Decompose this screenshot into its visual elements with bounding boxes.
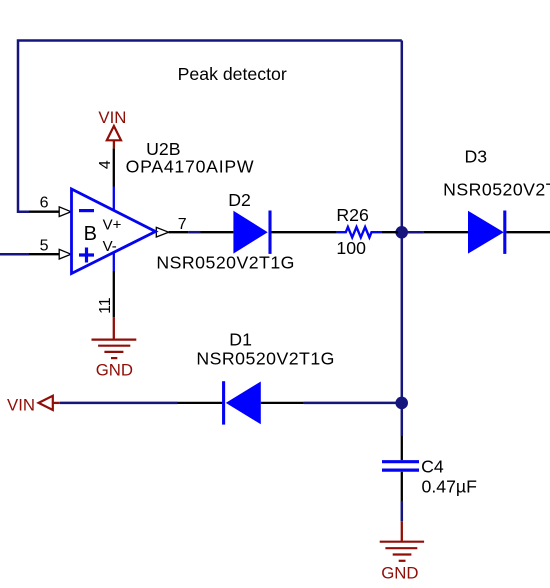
wire pin 5 black lead [29, 253, 59, 255]
pin 6 arrowhead [59, 207, 71, 217]
diode D3 [468, 211, 505, 254]
op-amp inverting input minus sign [79, 209, 94, 212]
pin 7 output arrowhead [156, 227, 168, 237]
wire D1 cathode to node [304, 402, 402, 405]
op-amp pin 11 V- lead [113, 252, 115, 271]
svg-text:0.47µF: 0.47µF [422, 476, 478, 496]
svg-text:11: 11 [97, 297, 114, 314]
wire feedback net from output node to pin 6 [18, 41, 402, 212]
node junction dot at R26/D3 [395, 226, 408, 239]
wire VIN to D1 anode [60, 402, 178, 405]
svg-text:R26: R26 [336, 205, 369, 225]
wire node to D3 anode [424, 231, 468, 233]
capacitor C4 [382, 436, 419, 501]
svg-text:Peak detector: Peak detector [178, 64, 287, 84]
wire D2 anode lead [201, 231, 234, 233]
power VIN arrow top [113, 140, 115, 148]
svg-text:NSR0520V2T1G: NSR0520V2T1G [156, 253, 294, 273]
wire C4 to ground [401, 501, 404, 521]
svg-text:D2: D2 [228, 190, 251, 210]
wire output node vertical bus [401, 41, 404, 437]
node junction dot at D1/C4 [395, 397, 408, 410]
wire D1 anode black lead [261, 402, 304, 404]
op-amp U2B triangle [72, 189, 156, 274]
svg-text:7: 7 [178, 216, 187, 233]
svg-text:NSR0520V2T1G: NSR0520V2T1G [196, 348, 334, 368]
pin 5 arrowhead [59, 249, 71, 259]
resistor R26 [337, 227, 382, 237]
op-amp non-inverting input plus sign [79, 248, 94, 263]
svg-text:5: 5 [40, 237, 49, 254]
svg-text:6: 6 [40, 195, 49, 212]
svg-text:GND: GND [381, 564, 418, 583]
ground symbol bottom [380, 542, 424, 561]
svg-text:C4: C4 [421, 457, 444, 477]
svg-text:V+: V+ [103, 216, 122, 233]
wire D2 cathode to R26 [272, 231, 337, 233]
wire R26 to node [381, 231, 398, 233]
svg-text:D1: D1 [229, 330, 252, 350]
diode D1 [224, 381, 261, 424]
svg-text:VIN: VIN [98, 108, 126, 127]
svg-text:GND: GND [96, 360, 133, 379]
port VIN arrow left [53, 402, 60, 404]
svg-text:B: B [84, 223, 97, 245]
wire pin 7 net stub [188, 231, 200, 234]
wire pin 7 black lead [169, 231, 189, 233]
ground symbol op-amp [92, 340, 137, 359]
svg-text:VIN: VIN [7, 395, 35, 414]
svg-text:D3: D3 [465, 147, 488, 167]
svg-text:OPA4170AIPW: OPA4170AIPW [126, 156, 254, 176]
svg-text:4: 4 [97, 160, 114, 169]
op-amp pin 4 V+ lead [113, 148, 115, 186]
svg-text:NSR0520V2T1G: NSR0520V2T1G [443, 180, 550, 200]
wire pin 5 input from left edge [0, 253, 29, 256]
wire D3 cathode to right edge [506, 231, 550, 233]
svg-text:V-: V- [103, 238, 117, 255]
wire pin 6 black lead [29, 211, 59, 213]
wire VIN left to D1 cathode black lead [178, 402, 223, 404]
diode D2 [233, 211, 270, 254]
wire stub node to D3 [402, 231, 424, 234]
svg-text:100: 100 [336, 238, 366, 258]
